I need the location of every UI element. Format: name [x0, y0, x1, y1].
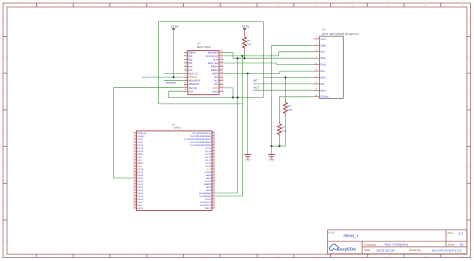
svg-text:INT: INT	[189, 90, 194, 93]
svg-text:Sheet_1: Sheet_1	[343, 233, 359, 238]
junction GND1/ECL run	[247, 72, 249, 74]
svg-text:SWDCLK: SWDCLK	[137, 132, 147, 135]
svg-text:AIN1: AIN1	[206, 177, 212, 180]
svg-text:AD0/SDO: AD0/SDO	[189, 80, 200, 83]
svg-text:NC: NC	[214, 76, 218, 79]
svg-text:GND: GND	[269, 158, 275, 161]
svg-text:VDDIO: VDDIO	[189, 76, 197, 79]
svg-text:VDD: VDD	[213, 87, 218, 90]
ground GND2	[268, 155, 275, 158]
svg-text:EDA: EDA	[321, 64, 326, 67]
svg-text:AREF0: AREF0	[204, 183, 212, 186]
svg-text:NC: NC	[189, 62, 193, 65]
svg-text:P0.08: P0.08	[205, 171, 211, 174]
svg-text:1/1: 1/1	[459, 243, 464, 247]
svg-text:2: 2	[58, 255, 59, 258]
wire AUX_DA to EDA	[223, 63, 314, 65]
svg-text:TITLE:: TITLE:	[328, 231, 336, 234]
wire U1 pin14 drop	[223, 88, 233, 98]
svg-text:SDA: SDA	[321, 57, 326, 60]
svg-text:13: 13	[461, 4, 463, 7]
svg-text:ECL: ECL	[321, 70, 326, 73]
svg-text:INT: INT	[253, 79, 258, 82]
IC U2 microcontroller body	[136, 123, 212, 210]
svg-text:+3.3V: +3.3V	[170, 25, 178, 29]
wire GND2 drop	[271, 45, 273, 154]
svg-text:P0.01: P0.01	[137, 183, 143, 186]
svg-text:P0.24: P0.24	[137, 147, 143, 150]
wire +3.3V to VDDIO	[173, 29, 175, 77]
wire R2 to gnd rail	[284, 116, 286, 146]
svg-text:+3.3V: +3.3V	[241, 25, 249, 29]
svg-text:NC: NC	[189, 58, 193, 61]
junction AD0/R2	[284, 77, 286, 79]
svg-text:5: 5	[168, 4, 169, 7]
svg-text:REGOUT: REGOUT	[189, 83, 200, 86]
svg-text:SWDIO: SWDIO	[137, 135, 145, 138]
svg-text:VCC: VCC	[206, 168, 211, 171]
svg-text:P0.26: P0.26	[137, 168, 143, 171]
svg-text:P0.09: P0.09	[205, 165, 211, 168]
wire GND to ECL	[223, 71, 314, 73]
svg-text:P0.17(TRACEDATA2): P0.17(TRACEDATA2)	[190, 141, 211, 144]
svg-text:P0.06: P0.06	[137, 198, 143, 201]
svg-text:P0.01(XL1): P0.01(XL1)	[200, 204, 211, 207]
svg-text:FSYNC: FSYNC	[189, 87, 198, 90]
svg-text:AVDD: AVDD	[137, 153, 143, 156]
svg-text:P0.18(TRACEDATA1/SWO): P0.18(TRACEDATA1/SWO)	[184, 138, 211, 141]
wire GND1 drop	[247, 73, 249, 154]
svg-text:P0.10: P0.10	[205, 162, 211, 165]
svg-text:P0.02(XL2): P0.02(XL2)	[200, 201, 211, 204]
svg-text:P0.22: P0.22	[137, 141, 143, 144]
svg-text:P0.11: P0.11	[205, 159, 211, 162]
svg-text:Your Company: Your Company	[384, 243, 408, 247]
EasyEDA logo	[329, 244, 356, 251]
svg-text:RESV: RESV	[211, 69, 218, 72]
wire SDA net	[223, 52, 314, 58]
svg-text:6: 6	[205, 255, 206, 258]
svg-text:P0.12: P0.12	[205, 156, 211, 159]
junction +3.3V/VDDIO	[173, 76, 175, 78]
svg-text:P0.23: P0.23	[137, 144, 143, 147]
svg-text:AIN3: AIN3	[206, 189, 212, 192]
wire left riser	[158, 22, 160, 104]
resistor R3 10k FSYNC pulldown	[278, 121, 287, 138]
svg-text:NC: NC	[189, 55, 193, 58]
svg-text:daonhatlam123: daonhatlam123	[432, 248, 462, 252]
svg-text:6: 6	[205, 4, 206, 7]
wire under U2 bottom run	[159, 103, 243, 105]
svg-text:NCS: NCS	[321, 89, 327, 92]
svg-text:1.0: 1.0	[458, 232, 463, 236]
svg-text:VSS: VSS	[137, 204, 142, 207]
svg-text:P0.05: P0.05	[137, 195, 143, 198]
svg-text:2019-10-06: 2019-10-06	[376, 248, 394, 252]
wire top rail	[159, 21, 264, 23]
svg-text:P0.07: P0.07	[137, 201, 143, 204]
svg-text:INT: INT	[321, 83, 326, 86]
svg-text:VDD: VDD	[137, 165, 142, 168]
svg-text:NC: NC	[189, 65, 193, 68]
svg-text:NC: NC	[189, 69, 193, 72]
svg-text:AIN2: AIN2	[206, 186, 212, 189]
svg-text:8: 8	[278, 255, 279, 258]
svg-text:5: 5	[168, 255, 169, 258]
svg-text:8: 8	[278, 4, 279, 7]
wire SDA drop to U2	[215, 58, 238, 193]
svg-text:3: 3	[94, 255, 95, 258]
svg-text:GND: GND	[245, 158, 251, 161]
wire SCL net	[223, 52, 314, 56]
svg-text:P0.04(AIN5): P0.04(AIN5)	[199, 195, 211, 198]
svg-text:P0.04: P0.04	[137, 192, 143, 195]
ground GND1	[244, 155, 251, 158]
svg-text:GND: GND	[212, 90, 218, 93]
IC U1 MPU-9250 body	[188, 42, 219, 95]
wire AD0 to R2	[284, 78, 286, 100]
svg-text:P0.03: P0.03	[205, 198, 211, 201]
svg-text:P0.16(TRACEDATA3): P0.16(TRACEDATA3)	[190, 144, 211, 147]
svg-text:VCC: VCC	[321, 38, 326, 41]
svg-text:AD0: AD0	[321, 76, 326, 79]
svg-text:SCL: SCL	[321, 51, 326, 54]
svg-text:10: 10	[351, 4, 353, 7]
junction R1/SDA	[244, 57, 246, 59]
U2 left pins with numbers and names	[133, 131, 147, 210]
svg-text:P0.19(TRACEDATA0): P0.19(TRACEDATA0)	[190, 135, 211, 138]
title block	[328, 230, 467, 254]
svg-text:P0.21: P0.21	[137, 138, 143, 141]
svg-text:Drawn By:: Drawn By:	[409, 249, 422, 252]
svg-text:P0.03: P0.03	[137, 189, 143, 192]
svg-text:AIN0: AIN0	[206, 174, 212, 177]
svg-text:P0.07: P0.07	[205, 180, 211, 183]
svg-text:3: 3	[94, 4, 95, 7]
resistor R1 10k pull-up	[243, 29, 252, 52]
svg-text:13: 13	[461, 255, 463, 258]
svg-text:11: 11	[388, 4, 390, 7]
svg-text:7: 7	[241, 4, 242, 7]
svg-text:FSYNC: FSYNC	[321, 96, 330, 99]
wire gnd tie rail	[272, 145, 286, 147]
U1 left pins 1-12 with numbers and names	[184, 50, 200, 94]
svg-text:2: 2	[58, 4, 59, 7]
wire AD0/SDO stub	[164, 80, 184, 82]
wire NCS stub	[253, 89, 314, 91]
svg-text:AUX_DA: AUX_DA	[208, 62, 218, 65]
wire right riser	[262, 22, 264, 98]
svg-text:11: 11	[388, 255, 390, 258]
svg-text:NRF MPU9250 Breakout: NRF MPU9250 Breakout	[322, 32, 359, 36]
junction gnd rail left	[271, 145, 273, 147]
junction INT drop	[237, 97, 239, 99]
svg-text:9: 9	[315, 255, 316, 258]
svg-text:7: 7	[241, 255, 242, 258]
wire VDDIO	[142, 76, 184, 78]
svg-text:P0.30: P0.30	[137, 177, 143, 180]
svg-text:NC: NC	[214, 80, 218, 83]
junction SDA drop	[237, 57, 239, 59]
svg-text:P0.27: P0.27	[137, 171, 143, 174]
svg-text:REV:: REV:	[448, 232, 454, 235]
svg-text:nCS: nCS	[213, 58, 218, 61]
wire SCL drop to U2	[215, 56, 243, 196]
wire INT from U1 under chip	[169, 91, 264, 97]
svg-text:P0.05(AIN6): P0.05(AIN6)	[199, 192, 211, 195]
svg-text:RESV: RESV	[211, 65, 218, 68]
svg-text:10: 10	[351, 255, 353, 258]
junction gnd rail mid	[279, 145, 281, 147]
svg-text:AVSS: AVSS	[137, 207, 143, 210]
svg-text:EasyEDA: EasyEDA	[337, 246, 356, 251]
svg-text:P0.13: P0.13	[205, 153, 211, 156]
svg-text:DEC1: DEC1	[205, 207, 212, 210]
svg-text:P0.00: P0.00	[137, 180, 143, 183]
wire FSYNC from U1 to U2	[114, 88, 184, 178]
svg-text:P0.02: P0.02	[137, 186, 143, 189]
wire R3 to gnd rail	[279, 137, 281, 146]
svg-text:P0.20(TRACECLK): P0.20(TRACECLK)	[192, 132, 211, 135]
wire FSYNC pin10	[280, 96, 314, 98]
svg-text:P0.28: P0.28	[137, 174, 143, 177]
svg-text:AUX_CL: AUX_CL	[189, 73, 199, 76]
junction SCL drop	[242, 55, 244, 57]
wire AUX_CL stub	[164, 73, 184, 75]
svg-text:P0.15: P0.15	[205, 147, 211, 150]
svg-text:P0.25: P0.25	[137, 150, 143, 153]
svg-text:GND: GND	[212, 73, 218, 76]
U3 pins 1-10 with numbers and names	[314, 36, 329, 99]
svg-text:C8051: C8051	[173, 127, 181, 130]
wire FSYNC to R3	[279, 97, 281, 121]
wire INT stub	[253, 83, 314, 85]
svg-text:NCS: NCS	[253, 86, 259, 89]
svg-text:1: 1	[21, 255, 22, 258]
svg-text:NC: NC	[214, 83, 218, 86]
U1 right pins 24-13 with numbers and names	[206, 50, 224, 94]
svg-text:Company:: Company:	[364, 244, 377, 247]
resistor R2 10k AD0 pulldown	[283, 99, 292, 116]
wire R1 to SDA	[244, 53, 246, 59]
svg-text:AD0/SDO: AD0/SDO	[166, 81, 176, 84]
svg-text:DEC2: DEC2	[137, 162, 144, 165]
svg-text:Sheet:: Sheet:	[448, 243, 456, 246]
svg-text:9: 9	[315, 4, 316, 7]
svg-text:MPU-9250: MPU-9250	[197, 45, 211, 49]
wire connector GND pin	[272, 44, 314, 46]
connector U3 NRF MPU9250 Breakout body	[319, 29, 358, 99]
svg-text:12: 12	[425, 4, 427, 7]
svg-text:GND: GND	[321, 44, 327, 47]
svg-text:4: 4	[131, 4, 132, 7]
U2 right pins with numbers and names	[184, 131, 215, 210]
svg-text:RESV: RESV	[189, 51, 196, 54]
svg-text:P0.14: P0.14	[205, 150, 211, 153]
svg-text:1: 1	[21, 4, 22, 7]
svg-text:4: 4	[131, 255, 132, 258]
svg-text:SDA/SDI: SDA/SDI	[208, 51, 218, 54]
wire AD0 net	[263, 77, 313, 79]
junction pin14/INT run	[232, 97, 234, 99]
svg-text:Date:: Date:	[364, 249, 371, 252]
svg-text:SCL/SCLK: SCL/SCLK	[206, 55, 218, 58]
svg-text:12: 12	[425, 255, 427, 258]
